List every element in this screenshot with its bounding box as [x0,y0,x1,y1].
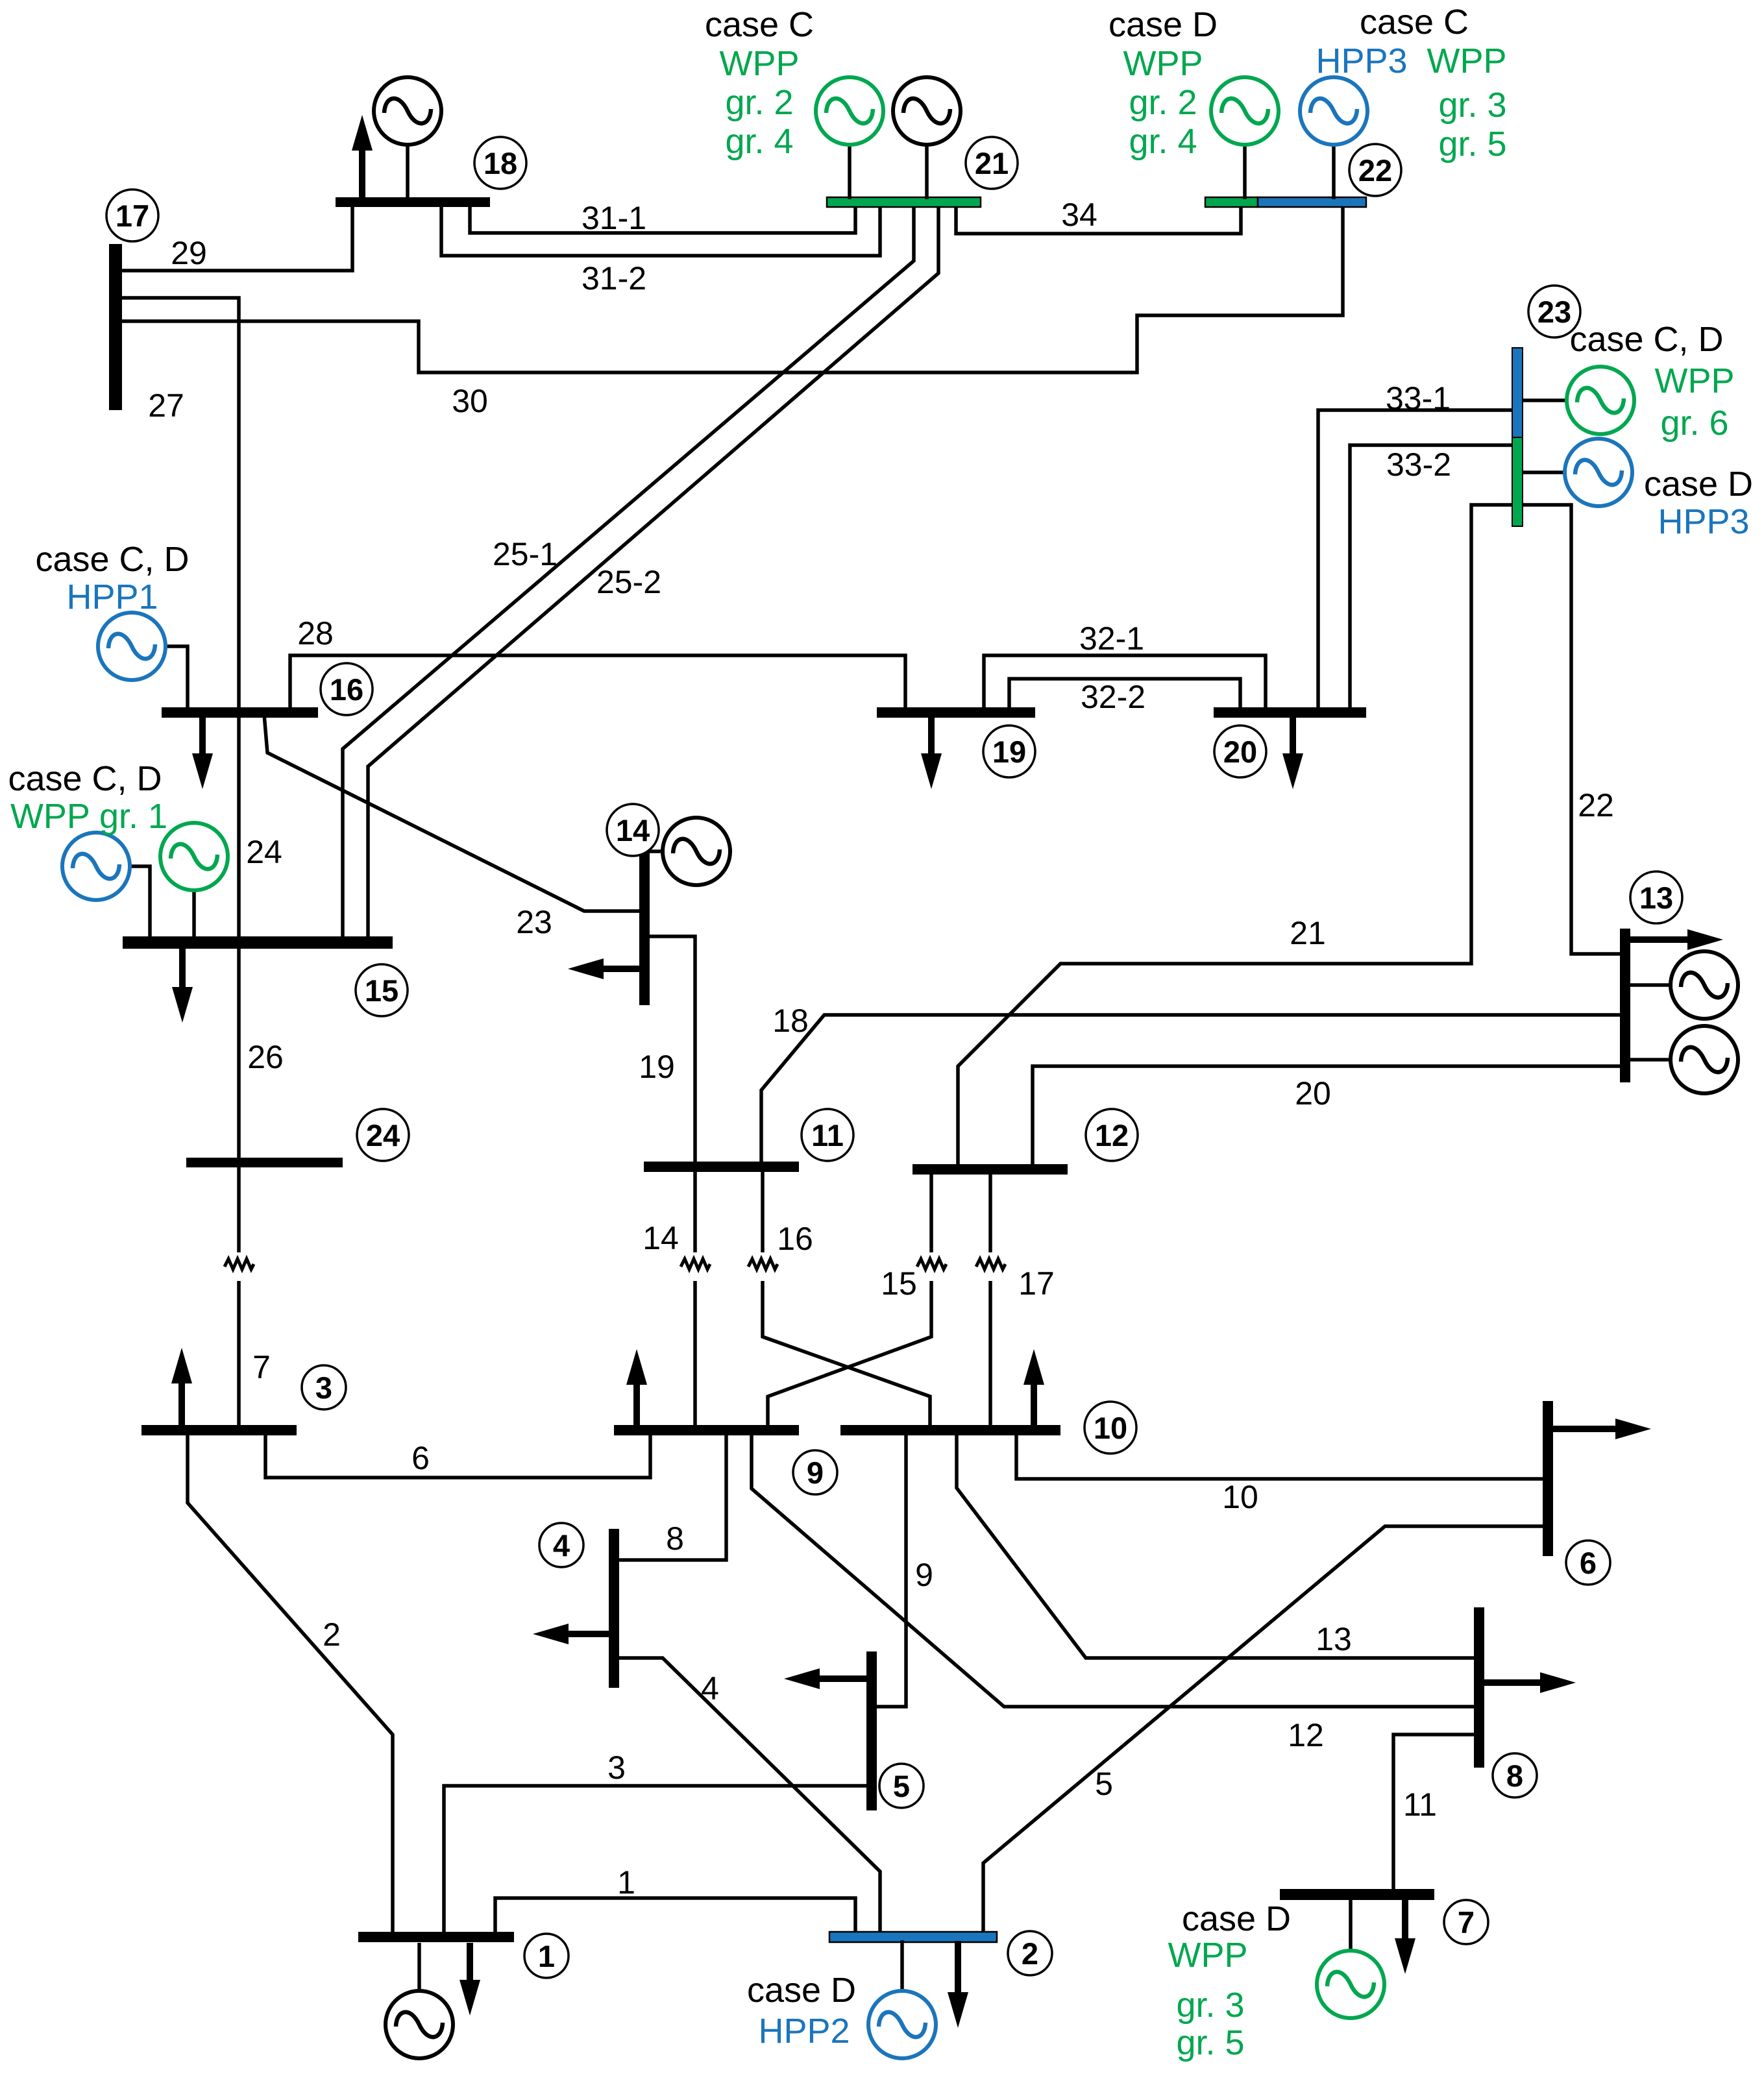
svg-text:5: 5 [1095,1766,1113,1802]
svg-text:case C, D: case C, D [8,759,162,798]
node circle 13 [1630,871,1682,923]
svg-text:case D: case D [1182,1899,1291,1938]
svg-text:case D: case D [1109,5,1218,44]
generator WPP at bus 22 [1211,77,1279,199]
svg-text:case D: case D [747,1971,856,2010]
svg-text:gr. 5: gr. 5 [1176,2023,1244,2062]
svg-text:26: 26 [247,1039,284,1075]
node circle 24 [357,1109,409,1161]
svg-text:13: 13 [1639,881,1673,915]
node circle 18 [474,137,526,189]
bus 4 [609,1529,619,1688]
bus 24 [186,1158,343,1167]
bus 18 [336,197,490,207]
wire line 7 (bus3-bus24) [237,1164,241,1428]
generator at bus 14 [647,818,730,885]
wire line 9 (bus5-bus10) [874,1433,906,1707]
bus 15 [123,936,393,949]
node circle 19 [983,725,1035,777]
svg-text:case D: case D [1644,465,1753,504]
transformer on line 16 [748,1259,778,1269]
svg-text:14: 14 [616,813,650,847]
load arrow at bus 5 (left) [820,1675,868,1682]
wire line 31-1 (bus18-bus21) [470,203,855,233]
generator HPP at bus 15 [62,833,150,938]
node circle 23 [1528,286,1580,337]
svg-text:31-2: 31-2 [582,260,646,297]
svg-text:20: 20 [1223,735,1257,769]
svg-text:22: 22 [1578,787,1614,823]
wire line 11 (bus7-bus8) [1393,1735,1477,1892]
node circle 17 [106,189,158,241]
svg-text:4: 4 [701,1670,719,1707]
svg-text:gr. 4: gr. 4 [1129,122,1197,161]
wire line 33-1 (bus20-bus23) [1318,410,1515,711]
load arrow at bus 2 (down) [955,1941,961,1992]
load arrow at bus 7 (down) [1402,1899,1408,1938]
load arrow at bus 19 (down) [928,716,935,753]
wire line 24 (bus15-bus16) [237,714,241,940]
node circle 16 [321,663,373,715]
svg-text:WPP: WPP [1123,44,1203,83]
svg-text:30: 30 [452,383,488,419]
svg-text:gr. 5: gr. 5 [1438,125,1506,164]
bus 17 [109,244,122,410]
svg-text:gr. 2: gr. 2 [1129,83,1197,122]
generator WPP at bus 21 [816,77,883,199]
svg-text:8: 8 [1506,1759,1523,1793]
wire line 8 (bus4-bus9) [616,1433,726,1560]
svg-text:31-1: 31-1 [582,200,646,236]
load arrow at bus 10 (up) [1031,1385,1037,1426]
svg-text:16: 16 [777,1221,813,1257]
svg-text:5: 5 [893,1769,910,1803]
bus 6 [1543,1401,1553,1556]
wire line 13 (bus8-bus10) [957,1433,1477,1658]
wire line 30 (bus17-bus22) [119,204,1343,372]
wire line 2 (bus1-bus3) [188,1433,393,1935]
node circle 22 [1349,144,1401,196]
svg-text:12: 12 [1095,1118,1129,1152]
generator 1 at bus 13 [1628,951,1738,1019]
load arrow at bus 15 (down) [179,947,186,987]
transformer on line 17 [976,1259,1005,1269]
bus 19 [877,707,1035,718]
svg-text:33-2: 33-2 [1386,446,1451,483]
wire line 21 (bus12-bus23) [958,505,1516,1167]
wire line 34 (bus21-bus22) [956,204,1241,234]
svg-text:7: 7 [1458,1905,1475,1940]
svg-text:gr. 6: gr. 6 [1660,404,1728,443]
svg-text:9: 9 [915,1557,933,1593]
svg-text:3: 3 [315,1370,332,1405]
bus 7 [1280,1889,1434,1900]
bus 12 [913,1164,1068,1175]
svg-text:WPP: WPP [1168,1936,1247,1975]
svg-text:17: 17 [1018,1265,1055,1302]
wire line 23 (bus14-bus16) [264,714,643,911]
svg-text:case C, D: case C, D [35,540,189,579]
svg-text:case C, D: case C, D [1569,320,1723,359]
svg-text:16: 16 [330,672,363,707]
wire line 1 (bus1-bus2) [495,1898,855,1935]
svg-text:14: 14 [643,1220,679,1256]
svg-text:6: 6 [1580,1546,1597,1580]
node circle 14 [607,804,659,856]
generator HPP2 at bus 2 [868,1940,936,2058]
svg-text:WPP: WPP [1427,42,1506,80]
wire line 32-2 (bus19-bus20) [1009,679,1240,711]
svg-text:gr. 3: gr. 3 [1176,1986,1244,2025]
wire line 14 (bus9-bus11) [693,1168,697,1428]
node circle 5 [879,1764,924,1808]
wire line 15 (bus9-bus12) [768,1171,931,1428]
load arrow at bus 3 (up) [178,1383,185,1426]
node circle 4 [539,1523,583,1567]
node circle 2 [1008,1931,1052,1975]
node circle 7 [1444,1900,1488,1944]
svg-text:19: 19 [992,735,1026,769]
svg-text:3: 3 [607,1749,626,1786]
svg-text:32-1: 32-1 [1079,620,1144,657]
svg-text:HPP1: HPP1 [66,578,158,616]
generator HPP1 at bus 16 [98,613,188,709]
svg-text:18: 18 [772,1003,809,1039]
generator at bus 1 [386,1943,453,2058]
svg-text:1: 1 [538,1939,555,1973]
svg-text:15: 15 [881,1265,917,1302]
svg-text:12: 12 [1288,1717,1324,1753]
svg-text:34: 34 [1061,197,1097,233]
generator HPP3 at bus 23 [1523,439,1632,506]
generator WPP gr.6 at bus 23 [1523,367,1634,434]
svg-text:9: 9 [807,1456,824,1490]
svg-text:19: 19 [639,1049,675,1085]
svg-text:33-1: 33-1 [1386,380,1451,417]
bus 11 [644,1162,799,1172]
svg-text:17: 17 [116,199,149,233]
node circle 3 [302,1365,346,1409]
svg-text:29: 29 [171,235,207,271]
wire line 32-1 (bus19-bus20) [984,655,1266,711]
bus 14 [639,851,650,1005]
generator black at bus 21 [893,77,961,199]
bus 10 [840,1425,1060,1435]
wire line 17 (bus10-bus12) [988,1171,992,1428]
wire line 27 (bus16-bus17) [119,298,239,711]
svg-text:10: 10 [1094,1411,1127,1445]
wire line 20 (bus12-bus13) [1033,1066,1623,1167]
svg-text:WPP: WPP [719,44,799,83]
wire line 29 (bus17-bus18) [119,203,352,271]
bus 22 (green+blue) [1205,197,1258,207]
svg-text:13: 13 [1316,1621,1352,1657]
generator 2 at bus 13 [1628,1026,1738,1093]
load arrow at bus 1 (down) [467,1943,473,1980]
wire line 26 (bus15-bus24) [237,945,241,1161]
bus 3 [141,1425,297,1435]
transformer on line 15 [917,1259,946,1269]
node circle 20 [1214,725,1266,777]
svg-text:15: 15 [365,973,398,1008]
node circle 8 [1493,1753,1537,1797]
wire line 18 (bus11-bus13) [761,1015,1623,1165]
node circle 12 [1086,1109,1138,1161]
node circle 10 [1084,1402,1136,1454]
bus 1 [358,1932,514,1942]
wire line 12 (bus8-bus9) [752,1433,1477,1707]
svg-text:28: 28 [297,615,334,652]
svg-text:23: 23 [1537,295,1571,329]
bus 16 [162,707,318,718]
node circle 1 [524,1934,569,1978]
wire line 16 (bus10-bus11) [763,1168,930,1428]
wire line 5 (bus2-bus6) [983,1526,1546,1935]
wire line 25-2 (bus15-bus21) [368,204,938,940]
load arrow at bus 8 (right) [1482,1679,1540,1686]
svg-text:23: 23 [516,904,552,940]
svg-text:27: 27 [148,387,184,424]
load arrow at bus 18 (up) [359,151,365,199]
wire line 19 (bus11-bus14) [647,936,695,1165]
svg-text:32-2: 32-2 [1081,679,1145,715]
bus 20 [1214,707,1366,718]
svg-text:10: 10 [1222,1479,1258,1515]
svg-text:8: 8 [666,1520,684,1557]
generator HPP3 at bus 22 [1300,77,1367,199]
svg-text:1: 1 [617,1864,635,1901]
svg-text:HPP2: HPP2 [758,2012,850,2051]
svg-text:gr. 4: gr. 4 [725,122,793,161]
svg-text:WPP gr. 1: WPP gr. 1 [10,797,167,836]
bus 23 (blue+green vertical) [1512,348,1523,437]
bus 8 [1474,1607,1484,1768]
transformer on line 14 [681,1259,710,1269]
load arrow at bus 6 (right) [1550,1426,1615,1432]
load arrow at bus 4 (left) [569,1631,611,1637]
svg-text:HPP3: HPP3 [1316,42,1407,80]
load arrow at bus 13 (right) [1628,936,1687,943]
svg-text:11: 11 [1403,1786,1437,1823]
bus 13 [1620,929,1630,1082]
node circle 9 [793,1450,837,1494]
svg-text:18: 18 [484,146,517,180]
svg-text:case C: case C [1360,3,1469,42]
svg-text:21: 21 [1290,915,1326,951]
svg-text:case C: case C [705,5,814,44]
svg-text:HPP3: HPP3 [1658,502,1749,541]
transformer on line 7 [225,1259,254,1269]
svg-text:21: 21 [975,146,1009,180]
svg-text:2: 2 [1022,1936,1038,1971]
generator WPP at bus 7 [1317,1899,1384,2018]
svg-text:7: 7 [252,1349,271,1385]
bus 2 (blue) [829,1932,997,1942]
wire line 6 (bus3-bus9) [265,1433,650,1478]
svg-text:24: 24 [366,1118,400,1152]
svg-text:20: 20 [1295,1075,1331,1112]
wire line 33-2 (bus20-bus23) [1350,445,1515,711]
wire line 10 (bus6-bus10) [1016,1433,1546,1479]
svg-text:4: 4 [553,1528,570,1563]
load arrow at bus 14 (left) [604,966,641,972]
svg-text:11: 11 [811,1118,844,1152]
load arrow at bus 20 (down) [1290,716,1296,753]
wire line 25-1 (bus15-bus21) [343,204,914,940]
wire line 4 (bus2-bus4) [616,1658,880,1935]
node circle 11 [802,1109,853,1161]
generator at bus 18 [374,77,441,199]
bus 5 [866,1651,877,1810]
node circle 15 [356,964,408,1016]
svg-text:6: 6 [411,1440,430,1476]
node circle 21 [966,137,1018,189]
wire line 3 (bus1-bus5) [444,1786,870,1935]
svg-text:2: 2 [323,1616,341,1653]
svg-text:gr. 2: gr. 2 [725,83,793,122]
svg-text:22: 22 [1358,153,1392,188]
wire line 28 (bus16-bus19) [290,655,905,711]
svg-text:WPP: WPP [1654,361,1734,400]
svg-text:25-1: 25-1 [493,536,557,572]
svg-text:gr. 3: gr. 3 [1438,86,1506,125]
node circle 6 [1566,1541,1610,1585]
wire line 22 (bus13-bus23) [1519,505,1623,954]
svg-text:24: 24 [246,834,282,870]
svg-text:25-2: 25-2 [596,564,661,600]
bus 21 (green) [827,197,981,207]
bus 9 [614,1425,799,1435]
load arrow at bus 16 (down) [199,716,206,753]
wire line 31-2 (bus18-bus21) [441,203,880,256]
generator WPP gr.1 at bus 15 [160,823,228,938]
load arrow at bus 9 (up) [633,1385,640,1426]
